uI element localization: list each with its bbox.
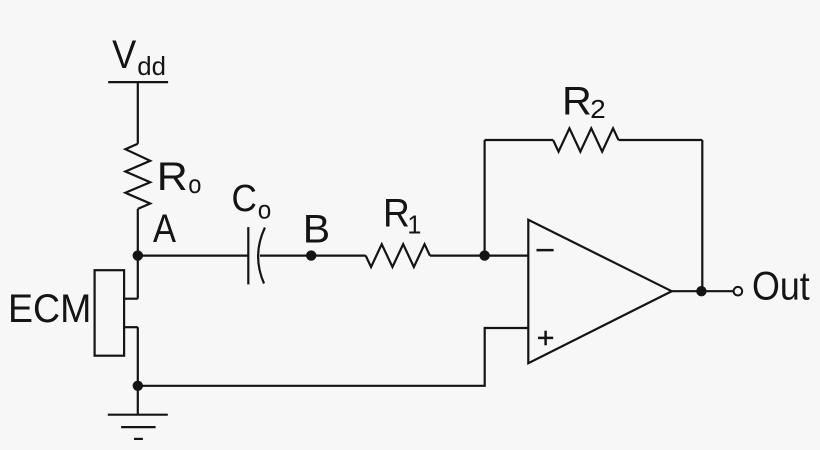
svg-text:A: A <box>153 207 176 251</box>
output terminal open circle <box>734 287 743 296</box>
op-amp U1 triangle <box>528 220 671 363</box>
svg-text:o: o <box>188 169 201 199</box>
wire ECM to bottom node <box>137 327 139 386</box>
node A junction dot <box>133 250 143 260</box>
feedback wire down to output node <box>701 140 703 291</box>
svg-text:B: B <box>303 207 330 251</box>
capacitor Co left plate <box>247 227 249 284</box>
resistor Ro <box>125 144 150 209</box>
svg-text:ECM: ECM <box>8 287 91 331</box>
ground line 3 <box>134 438 143 440</box>
resistor R2 <box>553 128 618 151</box>
ECM microphone body <box>95 270 125 356</box>
wire Ro to node A <box>137 209 139 256</box>
resistor R1 <box>366 244 430 267</box>
wire R2 to output branch <box>619 139 703 141</box>
output junction dot <box>696 286 706 296</box>
svg-text:dd: dd <box>137 51 166 81</box>
svg-text:Out: Out <box>752 264 810 308</box>
svg-text:V: V <box>112 33 136 77</box>
node B junction dot <box>306 250 316 260</box>
wire node A to capacitor Co <box>138 255 249 257</box>
wire bottom node to ground <box>137 386 139 415</box>
wire Co to R1 <box>260 255 366 257</box>
ground line 2 <box>121 426 156 428</box>
wire to R2 <box>485 139 553 141</box>
svg-text:2: 2 <box>590 94 606 124</box>
inverting input junction dot <box>479 250 489 260</box>
svg-text:C: C <box>232 178 257 220</box>
power Vdd bar <box>108 81 168 83</box>
capacitor Co right curved plate <box>258 228 265 284</box>
op-amp plus sign <box>538 337 553 340</box>
wire R1 to op-amp inverting input <box>430 255 528 257</box>
feedback wire up from junction <box>484 140 486 256</box>
svg-text:R: R <box>383 192 410 236</box>
svg-text:R: R <box>562 80 592 124</box>
svg-text:R: R <box>157 155 188 199</box>
wire op-amp noninverting input to bottom rail <box>138 328 529 386</box>
ECM bottom stub <box>124 326 138 328</box>
ground line 1 <box>108 414 168 416</box>
svg-text:1: 1 <box>407 209 421 239</box>
op-amp minus sign <box>537 249 554 252</box>
wire node A to ECM top stub <box>137 256 139 299</box>
svg-text:o: o <box>258 195 272 225</box>
ECM top stub <box>124 298 138 300</box>
bottom rail junction dot <box>133 381 143 391</box>
wire Vdd to Ro <box>137 82 139 144</box>
output wire <box>672 290 734 292</box>
